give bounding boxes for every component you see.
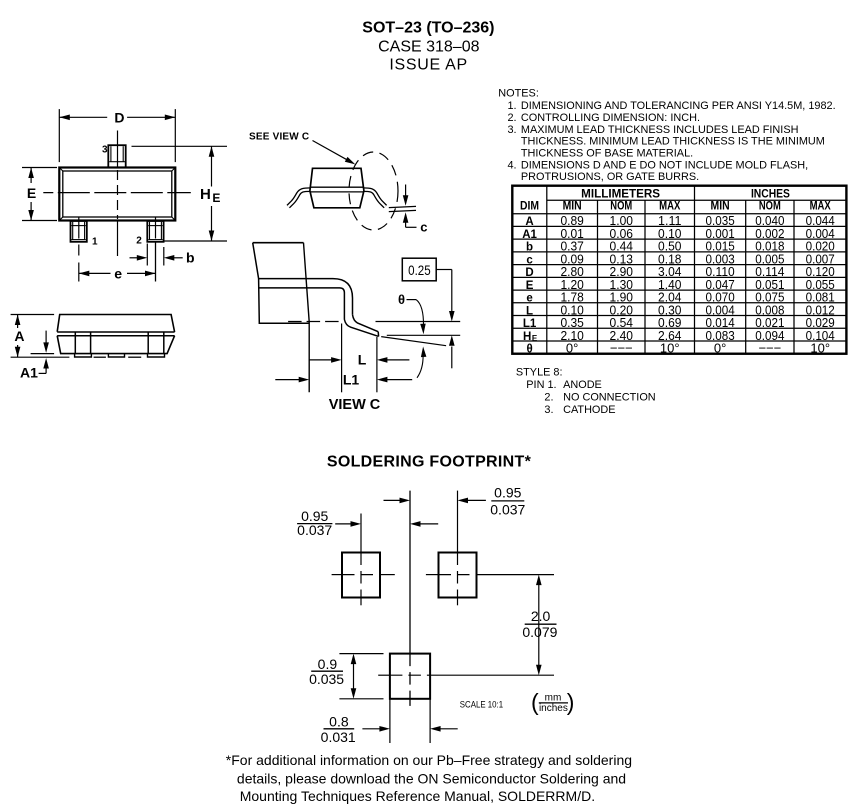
svg-text:SOLDERING FOOTPRINT*: SOLDERING FOOTPRINT* — [327, 454, 532, 471]
svg-text:NOM: NOM — [610, 199, 632, 213]
svg-text:NOTES:: NOTES: — [498, 88, 539, 100]
svg-text:NO CONNECTION: NO CONNECTION — [563, 391, 656, 403]
svg-text:(: ( — [531, 689, 539, 715]
svg-text:0.95: 0.95 — [494, 485, 521, 501]
svg-text:0.037: 0.037 — [297, 522, 332, 538]
svg-text:A: A — [525, 216, 533, 228]
svg-text:H: H — [523, 331, 531, 343]
svg-text:L: L — [526, 305, 533, 317]
svg-text:E: E — [526, 280, 534, 292]
svg-text:b: b — [526, 242, 533, 254]
svg-text:STYLE 8:: STYLE 8: — [516, 366, 563, 378]
svg-text:ANODE: ANODE — [563, 379, 602, 391]
svg-text:0.037: 0.037 — [490, 501, 525, 517]
svg-text:SEE VIEW C: SEE VIEW C — [249, 131, 309, 142]
svg-text:0.9: 0.9 — [318, 656, 338, 672]
svg-text:mm: mm — [545, 693, 562, 704]
svg-text:L: L — [358, 352, 367, 368]
svg-text:e: e — [114, 265, 122, 281]
svg-text:DIMENSIONS D AND E DO NOT INCL: DIMENSIONS D AND E DO NOT INCLUDE MOLD F… — [521, 160, 808, 172]
svg-text:c: c — [420, 219, 427, 234]
svg-text:*For additional information on: *For additional information on our Pb–Fr… — [226, 752, 632, 768]
svg-text:Mounting Techniques Reference: Mounting Techniques Reference Manual, SO… — [240, 788, 595, 804]
svg-text:CATHODE: CATHODE — [563, 404, 615, 416]
svg-text:MIN: MIN — [711, 199, 730, 213]
svg-text:SOT–23 (TO–236): SOT–23 (TO–236) — [362, 20, 494, 37]
svg-text:−−−: −−− — [610, 341, 633, 356]
svg-text:1: 1 — [92, 236, 98, 247]
svg-text:0.031: 0.031 — [321, 729, 356, 745]
svg-text:E: E — [532, 334, 538, 343]
svg-text:2.: 2. — [508, 112, 517, 124]
svg-text:θ: θ — [526, 344, 532, 356]
svg-text:D: D — [114, 110, 124, 126]
svg-text:): ) — [567, 689, 575, 715]
svg-text:2: 2 — [136, 236, 142, 247]
svg-text:THICKNESS. MINIMUM LEAD THICKN: THICKNESS. MINIMUM LEAD THICKNESS IS THE… — [521, 136, 825, 148]
svg-text:DIMENSIONING AND TOLERANCING P: DIMENSIONING AND TOLERANCING PER ANSI Y1… — [521, 100, 836, 112]
svg-text:2.: 2. — [544, 391, 553, 403]
svg-text:VIEW C: VIEW C — [329, 397, 381, 413]
svg-text:e: e — [526, 293, 532, 305]
svg-text:A: A — [14, 328, 24, 344]
svg-text:3: 3 — [102, 145, 108, 156]
svg-text:4.: 4. — [508, 160, 517, 172]
svg-text:H: H — [200, 186, 211, 203]
svg-text:D: D — [525, 267, 533, 279]
svg-text:CASE 318–08: CASE 318–08 — [378, 39, 480, 56]
svg-text:MIN: MIN — [563, 199, 582, 213]
svg-text:2.0: 2.0 — [531, 608, 551, 624]
svg-text:1.: 1. — [508, 100, 517, 112]
svg-text:0°: 0° — [566, 341, 578, 356]
svg-text:θ: θ — [398, 292, 405, 307]
svg-text:inches: inches — [539, 703, 568, 714]
svg-text:MAX: MAX — [810, 199, 831, 213]
svg-text:A1: A1 — [20, 365, 38, 381]
svg-text:0°: 0° — [714, 341, 726, 356]
svg-text:0.25: 0.25 — [408, 262, 431, 278]
svg-text:b: b — [186, 250, 195, 266]
svg-text:MAXIMUM LEAD THICKNESS INCLUDE: MAXIMUM LEAD THICKNESS INCLUDES LEAD FIN… — [521, 124, 799, 136]
svg-text:0.8: 0.8 — [329, 713, 349, 729]
svg-text:NOM: NOM — [759, 199, 781, 213]
svg-text:L1: L1 — [523, 318, 537, 330]
svg-text:DIM: DIM — [520, 199, 539, 213]
svg-text:E: E — [212, 191, 220, 205]
svg-text:0.035: 0.035 — [309, 671, 344, 687]
svg-text:10°: 10° — [810, 341, 830, 356]
svg-text:3.: 3. — [544, 404, 553, 416]
svg-text:THICKNESS OF BASE MATERIAL.: THICKNESS OF BASE MATERIAL. — [521, 147, 693, 159]
svg-text:10°: 10° — [660, 341, 680, 356]
svg-text:c: c — [526, 254, 533, 266]
svg-text:PIN 1.: PIN 1. — [526, 379, 556, 391]
svg-text:0.079: 0.079 — [522, 624, 557, 640]
svg-text:3.: 3. — [508, 124, 517, 136]
svg-text:PROTRUSIONS, OR GATE BURRS.: PROTRUSIONS, OR GATE BURRS. — [521, 171, 699, 183]
svg-text:E: E — [27, 185, 36, 201]
svg-text:L1: L1 — [343, 371, 360, 387]
svg-text:ISSUE AP: ISSUE AP — [389, 57, 468, 74]
svg-text:SCALE 10:1: SCALE 10:1 — [460, 699, 503, 709]
svg-text:details, please download the O: details, please download the ON Semicond… — [237, 770, 626, 786]
svg-text:−−−: −−− — [758, 341, 781, 356]
svg-text:A1: A1 — [522, 229, 537, 241]
svg-text:CONTROLLING DIMENSION: INCH.: CONTROLLING DIMENSION: INCH. — [521, 112, 700, 124]
svg-text:MAX: MAX — [659, 199, 680, 213]
